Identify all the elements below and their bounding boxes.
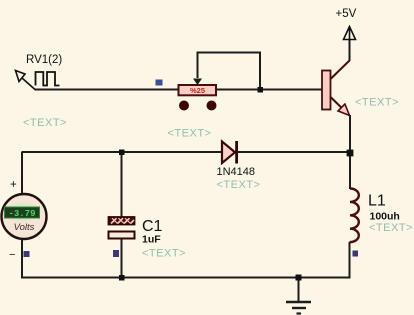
pot adjust dot right bbox=[207, 101, 217, 111]
node: emitter/inductor junction bbox=[347, 150, 354, 157]
capacitor C1 bottom plate bbox=[109, 232, 135, 239]
svg-text:+: + bbox=[10, 179, 17, 191]
node: cap top junction bbox=[119, 150, 125, 156]
node marker purple (inductor) bbox=[353, 251, 359, 257]
svg-text:1uF: 1uF bbox=[142, 233, 161, 245]
generator RV1(2) flag triangle bbox=[16, 71, 36, 90]
voltmeter green glow bbox=[2, 202, 42, 223]
wire: collector to +5V bbox=[349, 40, 351, 61]
wire: ground stem bbox=[298, 278, 300, 302]
generator pulse waveform bbox=[36, 72, 60, 86]
svg-text:-3.79: -3.79 bbox=[8, 209, 35, 219]
ground bar 1 bbox=[286, 301, 311, 303]
wire: pot to transistor base bbox=[216, 89, 322, 91]
wire: pot wiper feedback loop bbox=[198, 53, 261, 90]
transistor emitter arrowhead bbox=[338, 104, 350, 116]
svg-text:%25: %25 bbox=[190, 86, 205, 95]
transistor Q1 base bar bbox=[322, 71, 331, 110]
pot adjust dot left bbox=[179, 101, 189, 111]
wire: left vertical through voltmeter bbox=[21, 152, 23, 279]
diode cathode bar bbox=[235, 141, 238, 164]
node: cap bottom junction bbox=[119, 275, 125, 281]
node: ground junction bbox=[296, 275, 302, 281]
svg-text:<TEXT>: <TEXT> bbox=[23, 117, 67, 129]
svg-text:RV1(2): RV1(2) bbox=[26, 54, 62, 66]
wire: capacitor branch top bbox=[121, 152, 123, 217]
node marker blue bbox=[156, 80, 163, 86]
wire: generator to pot (top horizontal) bbox=[35, 89, 179, 91]
power arrow symbol bbox=[344, 27, 356, 41]
inductor L1 coil bbox=[350, 188, 359, 242]
wire: emitter down to junction bbox=[349, 115, 351, 153]
svg-text:L1: L1 bbox=[368, 193, 386, 210]
transistor collector lead bbox=[330, 61, 350, 80]
wire: capacitor branch bottom bbox=[121, 238, 123, 278]
svg-text:1N4148: 1N4148 bbox=[217, 166, 256, 178]
capacitor C1 top plate (hatched) bbox=[109, 217, 135, 225]
node marker purple (voltmeter) bbox=[24, 251, 30, 257]
svg-text:<TEXT>: <TEXT> bbox=[168, 128, 212, 140]
wire: junction down to inductor top bbox=[349, 152, 351, 189]
diode D1 triangle bbox=[222, 142, 235, 164]
svg-text:<TEXT>: <TEXT> bbox=[355, 97, 399, 109]
potentiometer RV1 body bbox=[179, 85, 217, 95]
svg-text:−: − bbox=[9, 249, 15, 261]
wire: inductor bottom to bottom rail bbox=[349, 242, 351, 278]
ground bar 3 bbox=[297, 312, 302, 314]
ground bar 2 bbox=[292, 307, 306, 309]
node marker purple (cap) bbox=[113, 250, 119, 257]
wire: middle horizontal left of diode bbox=[22, 151, 222, 153]
transistor emitter lead bbox=[330, 97, 350, 116]
svg-text:+5V: +5V bbox=[336, 8, 357, 20]
pot wiper arrowhead bbox=[193, 79, 202, 86]
svg-text:<TEXT>: <TEXT> bbox=[217, 179, 261, 191]
wire: bottom horizontal bbox=[21, 277, 351, 279]
svg-text:Volts: Volts bbox=[14, 222, 35, 233]
wire: middle horizontal right of diode bbox=[237, 151, 351, 153]
svg-text:100uh: 100uh bbox=[370, 211, 400, 223]
node: loop junction bbox=[258, 87, 264, 93]
voltmeter display bbox=[5, 207, 40, 218]
voltmeter body bbox=[2, 194, 47, 239]
svg-text:<TEXT>: <TEXT> bbox=[369, 222, 413, 234]
svg-text:<TEXT>: <TEXT> bbox=[142, 248, 186, 260]
